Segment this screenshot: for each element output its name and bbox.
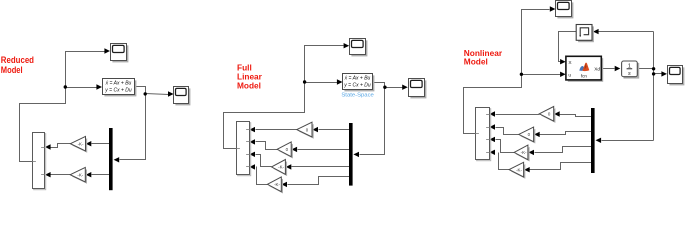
svg-text:Reduced: Reduced [1, 55, 34, 65]
svg-text:-K-: -K- [278, 165, 284, 170]
svg-text:-K-: -K- [77, 172, 83, 177]
svg-text:Model: Model [464, 57, 488, 67]
svg-text:-K-: -K- [521, 150, 527, 155]
svg-text:u: u [568, 73, 571, 78]
svg-text:s: s [628, 71, 631, 77]
svg-text:ẋ = Ax + Bu: ẋ = Ax + Bu [344, 76, 371, 82]
svg-text:-K-: -K- [274, 182, 280, 187]
svg-text:-K-: -K- [78, 141, 84, 146]
svg-text:-K-: -K- [516, 167, 522, 172]
svg-text:fcn: fcn [581, 74, 588, 79]
svg-text:y = Cx + Du: y = Cx + Du [343, 83, 371, 89]
svg-text:Xd: Xd [594, 66, 600, 72]
svg-text:ẋ = Ax + Bu: ẋ = Ax + Bu [105, 81, 132, 87]
svg-text:y = Cx + Du: y = Cx + Du [104, 88, 132, 94]
svg-text:State-Space: State-Space [341, 92, 374, 98]
svg-text:Model: Model [1, 65, 23, 75]
svg-text:Model: Model [237, 80, 261, 90]
